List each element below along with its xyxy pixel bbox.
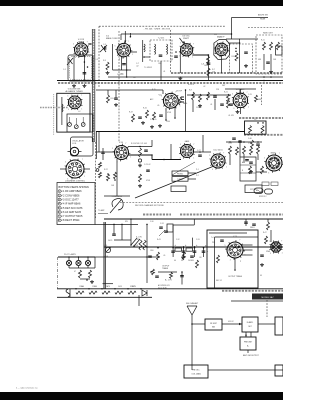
svg-text:COIL: COIL [72, 143, 76, 145]
tube V9 main socket [65, 159, 86, 181]
inner trimmer sub-box [67, 114, 93, 132]
node dot V1b [84, 61, 86, 63]
svg-text:7: 7 [279, 153, 280, 155]
svg-text:5: 5 [65, 161, 66, 163]
wire y272 [158, 271, 177, 273]
wire V3 left vert [179, 52, 181, 73]
tube V4 socket [213, 41, 230, 59]
ground V1 [73, 84, 75, 86]
svg-text:30: 30 [181, 260, 183, 262]
resistor right of V7 [255, 95, 258, 102]
node dot V2 bot [126, 69, 128, 71]
ground V2 left [107, 71, 109, 73]
heater resistor H5 [128, 291, 136, 294]
resistor in box a [249, 126, 252, 134]
svg-text:C-30: C-30 [150, 221, 154, 223]
svg-text:TUNER: TUNER [177, 179, 184, 181]
svg-text:.01 47K: .01 47K [228, 115, 235, 117]
svg-text:SPKR 3.2: SPKR 3.2 [259, 196, 266, 198]
block oscillator box bottom [184, 365, 208, 378]
svg-text:.01: .01 [163, 71, 165, 73]
heater resistor H3 [102, 291, 110, 294]
ground cluster [199, 104, 201, 106]
svg-text:C-5: C-5 [103, 44, 106, 46]
wire x240 right col [239, 140, 241, 157]
capacitor C30 [159, 226, 163, 228]
svg-text:P-2: P-2 [196, 175, 199, 177]
wire x155 vertical [160, 61, 162, 80]
node dots V4 feed [239, 42, 241, 44]
svg-text:1: 1 [132, 54, 133, 56]
svg-text:5: 5 [115, 46, 116, 48]
capacitor C25 [238, 140, 242, 142]
legend outline box [57, 183, 95, 225]
ground V6 left a [142, 121, 144, 123]
svg-text:B+: B+ [247, 346, 249, 348]
tube V2 conv socket [115, 41, 134, 61]
wire V4 top y39 [226, 38, 240, 40]
trimmer T-A [68, 123, 72, 127]
svg-text:117 VAC: 117 VAC [250, 188, 258, 191]
resistor R47 right edge [265, 236, 268, 244]
resistor left mid b [114, 172, 117, 179]
ground V4 [245, 64, 247, 66]
svg-text:RECORD CHANGER MOTOR BD: RECORD CHANGER MOTOR BD [135, 204, 164, 207]
coil L2 osc [62, 104, 63, 112]
svg-text:3: 3 [75, 57, 76, 59]
wire arrow rf to amp [222, 323, 242, 325]
resistor R18 right of V6 [179, 97, 182, 105]
svg-text:1: 1 [180, 106, 181, 108]
shield octagon around V4 [214, 40, 230, 60]
wire in box [213, 246, 228, 248]
capacitor C31 [164, 230, 168, 232]
node dot power a [146, 246, 148, 248]
hatch y134 right [244, 134, 283, 136]
shield wall right line [94, 29, 96, 142]
tube V14 output socket [225, 240, 246, 262]
AVC line x185 [185, 90, 187, 131]
connector box J1 [172, 171, 188, 176]
wire V1 right lead [83, 56, 85, 81]
stub circle on shield [96, 169, 99, 172]
diag arrow C30 [159, 230, 165, 236]
svg-text:3: 3 [270, 253, 271, 255]
svg-text:5 — radio schematic svc: 5 — radio schematic svc [16, 387, 38, 390]
wire x99 down [98, 132, 100, 152]
svg-text:OSCILLATOR: OSCILLATOR [72, 140, 84, 143]
coil T1 secondary [167, 44, 168, 54]
svg-text:50C5: 50C5 [118, 286, 122, 288]
capacitor V11 V12 link [198, 154, 202, 156]
svg-text:.005: .005 [146, 171, 149, 173]
dashed left of osc box [53, 94, 55, 135]
svg-text:6AV6: 6AV6 [185, 140, 189, 143]
wire x203 vertical [202, 135, 204, 152]
svg-text:B: B [242, 170, 243, 172]
svg-text:T-1 455KC: T-1 455KC [144, 67, 153, 69]
resistor Rb cluster [199, 94, 202, 102]
svg-text:R-43: R-43 [157, 239, 161, 241]
dashed partition x99 [98, 26, 100, 88]
svg-text:AM: AM [212, 326, 215, 329]
capacitor C38 right edge [260, 254, 264, 256]
node dots tr [263, 76, 265, 78]
plug oval a [254, 188, 263, 194]
resistor R7 osc [207, 68, 210, 76]
wire y196 [104, 195, 130, 197]
wire tr2 [270, 54, 272, 70]
ground left of V7 [237, 110, 239, 112]
wire arrow amp out [258, 323, 275, 325]
wire x271 right edge [270, 230, 272, 242]
power hatch bus left [143, 214, 171, 216]
svg-text:COIL DATA: COIL DATA [191, 373, 201, 376]
resistor R33 vert [261, 166, 264, 174]
wire x240 vertical [239, 89, 241, 95]
svg-text:R-9: R-9 [232, 56, 235, 58]
wire V3 right y55 [192, 54, 208, 56]
svg-text:1: 1 [193, 158, 194, 160]
heater resistor H4 [115, 291, 123, 294]
svg-text:P-1: P-1 [196, 169, 199, 171]
switch S1 contacts [131, 238, 137, 245]
ground x116 [115, 103, 117, 105]
capacitor C10 in can [244, 51, 248, 53]
wire x139 vertical bottom [138, 295, 140, 306]
svg-text:10K: 10K [111, 185, 115, 187]
shield wall hatch [93, 29, 95, 142]
svg-text:BOTTOM VIEWS SHOWN: BOTTOM VIEWS SHOWN [59, 185, 89, 189]
pilot lamp I2 [76, 260, 81, 265]
svg-text:PHONO: PHONO [177, 174, 184, 176]
wire V9 stub right [84, 168, 90, 170]
IF section bottom dashed line [120, 202, 283, 204]
svg-text:L-2: L-2 [78, 111, 81, 113]
svg-text:REAR: REAR [260, 18, 266, 21]
terminal box marks [245, 159, 249, 161]
dashed can top right [256, 35, 282, 74]
svg-text:B+ 117V: B+ 117V [165, 280, 173, 282]
components lob r2 [190, 255, 194, 257]
svg-text:6 V-6 AF AMP 6AV6: 6 V-6 AF AMP 6AV6 [59, 210, 82, 214]
node dots cluster [192, 94, 194, 96]
wire y95 mid [187, 94, 231, 96]
tube V12 AF socket [209, 152, 227, 171]
svg-text:220K: 220K [228, 143, 233, 145]
resistor R5 left [106, 62, 109, 70]
node dots heater [75, 288, 77, 290]
capacitor Cd cluster [213, 95, 217, 97]
power hatch bus right [180, 214, 283, 216]
resistor R13 [277, 42, 280, 50]
wire y146 mid [128, 146, 152, 148]
block audio box right [275, 317, 283, 335]
wire y90 to V6 [96, 89, 163, 91]
power dots [157, 247, 159, 249]
svg-text:OUTPUT TRANS: OUTPUT TRANS [228, 275, 243, 278]
bottom black border bar [0, 392, 283, 400]
wire left of can [142, 40, 144, 62]
svg-text:5: 5 [180, 43, 181, 45]
shield wall lower dashed [95, 142, 97, 218]
ground filters [182, 256, 184, 258]
svg-text:470K: 470K [146, 180, 151, 182]
svg-text:C-23 .02: C-23 .02 [144, 164, 151, 166]
svg-text:47: 47 [74, 271, 76, 273]
svg-text:7 V-7 OUTPUT 50C5: 7 V-7 OUTPUT 50C5 [59, 214, 83, 218]
svg-text:1: 1 [226, 166, 227, 168]
svg-text:R-14: R-14 [111, 98, 115, 100]
resistor x100 a [99, 162, 102, 168]
resistor R24 mid [139, 148, 142, 157]
capacitor T1 internal [159, 54, 163, 56]
svg-text:RATIO DET: RATIO DET [263, 32, 274, 35]
ground hatch bottom right [222, 290, 283, 292]
coil squiggle left of can [144, 44, 145, 52]
wire lamps bottom [68, 266, 70, 268]
wire V2 left vert [112, 44, 114, 70]
svg-text:SW: SW [125, 221, 128, 223]
svg-text:7: 7 [239, 240, 240, 242]
wire y257 left [95, 256, 160, 258]
capacitor C15 below V6 [159, 114, 163, 116]
svg-text:7: 7 [226, 41, 227, 43]
resistor R51 lamp [89, 270, 92, 278]
wire rf feed [192, 323, 205, 325]
resistor R44 [157, 252, 160, 260]
svg-text:68K: 68K [258, 59, 262, 61]
wire V1 left lead [73, 56, 75, 81]
resistor R14 x108 [107, 95, 110, 103]
svg-text:1 V-1 RF AMP 6BA6: 1 V-1 RF AMP 6BA6 [59, 189, 83, 193]
wire V7 up [239, 89, 241, 93]
trimmer T-B [74, 125, 78, 129]
resistor Ra cluster [192, 92, 195, 100]
node dot V1a [87, 66, 89, 68]
svg-text:6BE6 CONV: 6BE6 CONV [106, 38, 118, 40]
resistor R16 below V6 [146, 110, 149, 118]
svg-text:V-4: V-4 [214, 34, 217, 36]
top right dashed segment [248, 27, 283, 29]
pointer line from V12 [135, 166, 214, 198]
svg-text:7: 7 [81, 95, 82, 97]
cluster left of V4 [207, 56, 210, 64]
svg-text:7: 7 [128, 41, 129, 43]
wire x152 upper [151, 140, 153, 147]
wire V7 down [239, 108, 241, 114]
connector box J3 [171, 186, 186, 192]
oscillator coil outline box [71, 137, 94, 156]
capacitor C36 low [180, 275, 184, 277]
ground mid [139, 184, 141, 186]
wire tr1 [263, 54, 265, 70]
wire amp to power arrows [245, 332, 247, 337]
svg-text:R-5: R-5 [103, 60, 106, 62]
resistor right col r1 [251, 140, 254, 148]
svg-text:L-1: L-1 [96, 59, 99, 61]
wire under can [144, 56, 150, 58]
capacitor C35 [148, 255, 152, 257]
filter resistor box RA [175, 248, 182, 251]
svg-text:3: 3 [119, 59, 120, 61]
tube V15 rect socket [269, 241, 282, 255]
wire V9 stub left [60, 168, 66, 170]
heater resistor H2 [89, 291, 97, 294]
components left of V7 r [227, 94, 230, 102]
pointer line b from V12 [172, 162, 195, 175]
resistor Rd cluster [227, 100, 230, 108]
pilot lamp I3 [85, 260, 90, 265]
svg-text:GOLDENTONE: GOLDENTONE [68, 88, 81, 90]
output box [207, 230, 258, 288]
svg-text:IF AMPL: IF AMPL [247, 321, 254, 324]
svg-text:V-10: V-10 [119, 142, 123, 144]
capacitor C22 mid [144, 149, 148, 151]
gang capacitor arrow [100, 45, 107, 52]
resistor R9 below V4 [235, 53, 238, 61]
svg-text:5: 5 [232, 94, 233, 96]
svg-text:L-4: L-4 [133, 77, 136, 79]
terminal box divider 2 [240, 172, 256, 174]
top shield dashed line [99, 25, 226, 27]
IF transformer T1 can [150, 40, 172, 61]
node dots mid row [151, 154, 153, 156]
tube V6 socket [161, 91, 180, 111]
wire y39 to right can [240, 38, 258, 40]
capacitor Ce cluster [220, 103, 224, 105]
wire y233 in box [209, 232, 247, 234]
coil T1 primary [155, 44, 156, 54]
resistor left mid a [107, 174, 110, 181]
wire x96.5 down [96, 132, 98, 159]
svg-text:C-40: C-40 [248, 138, 252, 140]
wire bus y77 [108, 76, 283, 78]
svg-text:35W4: 35W4 [266, 251, 270, 253]
wire y142 right of V12 [226, 141, 262, 143]
node dots box [257, 122, 259, 124]
top black border bar [0, 0, 283, 6]
svg-text:100K: 100K [204, 65, 209, 67]
resistor R41 vert [139, 240, 142, 250]
resistor R50 lamp [79, 270, 82, 278]
svg-text:5: 5 [264, 157, 265, 159]
svg-text:R-24 470K C-22 .005: R-24 470K C-22 .005 [131, 143, 147, 145]
svg-text:5: 5 [180, 144, 181, 146]
svg-text:5: 5 [112, 148, 113, 150]
svg-text:R-19: R-19 [129, 112, 133, 114]
tube V13 inner shade [269, 158, 279, 168]
heater resistor H1 [76, 291, 84, 294]
wire x103 stub [102, 148, 104, 160]
electrolytic C34b [203, 247, 205, 257]
resistor R31 right of V12 [229, 146, 232, 154]
power box left edge inner [105, 222, 107, 289]
wire V11 V12 [193, 151, 211, 153]
svg-text:300 OHM ANT: 300 OHM ANT [186, 302, 199, 305]
resistor R12 [270, 42, 273, 50]
wire V6 lead a [165, 108, 167, 120]
tube V1 RF amp socket [73, 42, 90, 60]
diode arrow heater end [142, 290, 147, 296]
wire y159 mid right [152, 159, 181, 161]
wire y224 top [104, 223, 138, 225]
svg-text:PWR UNIT: PWR UNIT [244, 342, 252, 344]
wire step mid [151, 155, 153, 160]
svg-text:C-6 .01: C-6 .01 [117, 74, 123, 76]
resistor R35r [257, 146, 260, 154]
components left of V7 c [229, 103, 233, 105]
power box left edge [103, 222, 105, 289]
wire mid verticals [170, 144, 172, 160]
svg-text:7: 7 [223, 152, 224, 154]
resistor R33r [243, 146, 246, 154]
wire y89 right [225, 88, 256, 90]
svg-text:C-33: C-33 [196, 239, 200, 241]
svg-text:R-11: R-11 [261, 40, 265, 42]
capacitor C26 [249, 161, 253, 163]
wire V14 stub down [234, 258, 236, 270]
wire V2 to bus [126, 70, 128, 77]
svg-text:5: 5 [209, 155, 210, 157]
svg-text:FIELD: FIELD [250, 227, 256, 229]
svg-text:PILOT LAMPS: PILOT LAMPS [64, 253, 77, 256]
tube V5 osc socket [67, 95, 82, 111]
electrolytic C33 [183, 246, 185, 257]
wire x117 down [116, 159, 118, 197]
svg-text:C-1: C-1 [63, 69, 66, 71]
svg-text:35W4: 35W4 [130, 286, 134, 288]
vertical feed x239.6 [239, 39, 241, 73]
svg-text:C-17 .05: C-17 .05 [150, 119, 157, 121]
svg-text:6BA6 IF: 6BA6 IF [217, 36, 225, 39]
dashed x261 stub [261, 85, 263, 105]
svg-text:3: 3 [233, 108, 234, 110]
wire V6 top drop [162, 90, 164, 94]
svg-text:V-14: V-14 [233, 236, 237, 238]
dashed can around V4 [230, 44, 253, 73]
svg-text:470K: 470K [167, 112, 172, 114]
svg-text:V-3 OSC: V-3 OSC [182, 35, 190, 37]
electrolytic C32 [172, 248, 174, 257]
loop antenna frame outer [68, 55, 93, 81]
oscillator shield box [57, 93, 90, 132]
shield wall left line [91, 29, 93, 142]
wire top right power [245, 219, 247, 226]
svg-text:6BA6: 6BA6 [183, 102, 187, 105]
resistor R32 right of V12 [236, 147, 239, 155]
svg-text:P: P [240, 261, 242, 263]
capacitor C6 between [122, 63, 126, 65]
svg-text:5: 5 [269, 241, 270, 243]
svg-text:20 MFD: 20 MFD [188, 260, 195, 262]
svg-text:ANT. FM OUTPUT: ANT. FM OUTPUT [243, 354, 259, 357]
wire V2 top arrow [124, 31, 126, 43]
block RF unit box [205, 319, 222, 330]
capacitor C24 [232, 137, 236, 139]
svg-text:12AT6: 12AT6 [105, 285, 110, 288]
osc hatch bus y73 [171, 72, 283, 74]
svg-text:7: 7 [125, 143, 126, 145]
capacitor C29 [112, 233, 116, 235]
wire x182 down [181, 272, 183, 285]
wire V2 drop a [121, 57, 123, 70]
wire V4 bottom lead [221, 56, 223, 73]
marks between T1 V3 [174, 55, 178, 57]
svg-text:.02: .02 [136, 66, 139, 68]
svg-text:22K: 22K [216, 89, 220, 91]
capacitor C5 far left [104, 46, 106, 50]
